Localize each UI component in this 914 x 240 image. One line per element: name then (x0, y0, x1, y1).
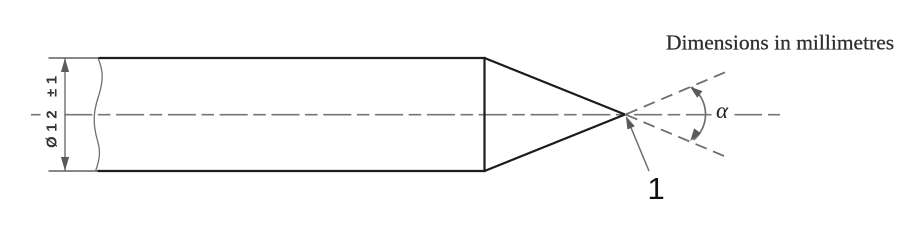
centerline (axis) left run (31, 114, 712, 116)
svg-text:Dimensions in millimetres: Dimensions in millimetres (666, 31, 894, 55)
dimension line (64, 59, 66, 171)
arc arrowhead upper (687, 83, 702, 97)
svg-text:Ø12 ±1: Ø12 ±1 (45, 71, 61, 148)
leader line to tip (631, 127, 650, 172)
arc arrowhead lower (687, 128, 701, 143)
leader arrowhead (622, 114, 635, 129)
cone lower slant (485, 115, 626, 172)
svg-text:α: α (716, 98, 729, 123)
break line (wavy) (94, 58, 102, 171)
angle dimension arc (692, 87, 706, 140)
extension line top (49, 57, 99, 59)
dimension arrowhead top (61, 58, 69, 72)
extension line bottom (49, 170, 99, 172)
dimension arrowhead bottom (61, 157, 69, 171)
cone upper slant (485, 58, 626, 115)
cylinder body top edge (99, 57, 485, 59)
angle construction line upper (dashed) (626, 72, 725, 114)
centerline (axis) right run (735, 114, 781, 116)
cylinder body bottom edge (98, 170, 485, 172)
cone base (right edge) (483, 57, 485, 172)
centerline break behind dimension text (43, 110, 63, 119)
angle construction line lower (dashed) (626, 115, 724, 156)
svg-text:1: 1 (648, 171, 665, 206)
